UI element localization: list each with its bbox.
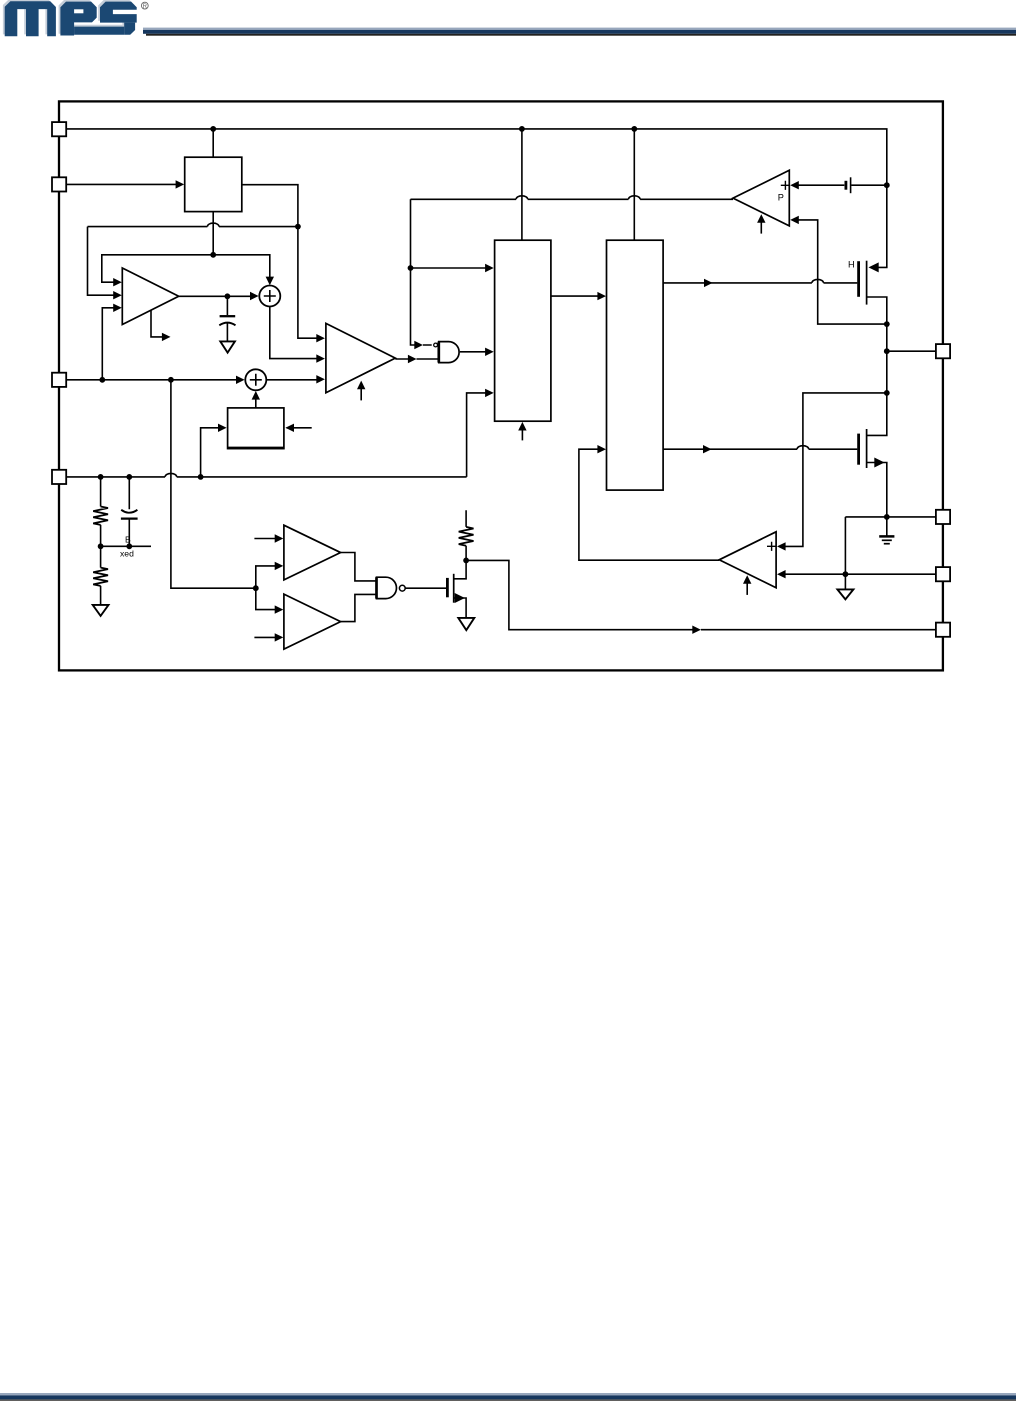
ground triangle under R2 <box>93 605 109 616</box>
wire EN input to block B1 <box>66 183 178 185</box>
AND gate U1 <box>439 342 459 363</box>
wire TB1 output to TB2 <box>551 295 599 297</box>
power ground earth symbol <box>879 535 894 538</box>
resistor R2 <box>100 546 102 605</box>
wire AND output to TB1 <box>460 351 486 353</box>
wire BST node to port rail <box>466 560 936 629</box>
wire error amp input 1 / B1 to summing node S1 <box>102 255 270 284</box>
wire T2 output to NAND <box>341 594 377 621</box>
wire CMP2 output to TB2 input <box>579 449 719 560</box>
port SW <box>936 344 950 358</box>
wire power ground stub <box>886 517 888 536</box>
label + on C4 <box>781 181 790 190</box>
wire B2 left input <box>201 428 220 477</box>
wire C4 minus input from SW sense <box>798 220 887 324</box>
resistor R3 above bootstrap FET <box>465 510 467 560</box>
summing junction S2 <box>245 369 266 390</box>
wire T1 output to NAND <box>341 553 377 581</box>
wire TB2 output to low-side FET gate <box>663 446 857 449</box>
svg-text:R: R <box>143 4 148 10</box>
port PGND <box>936 567 950 581</box>
wire TB1 bottom arrow <box>521 429 523 441</box>
wire CMP2 minus input rail to GND port <box>785 573 936 575</box>
capacitor C1 leads <box>128 477 130 546</box>
svg-text:P: P <box>778 192 784 202</box>
wire slope comp box B2 to S2 <box>255 393 257 408</box>
label + on CMP2 <box>767 542 776 551</box>
port IN <box>52 122 66 136</box>
wire COMP/IN rail to summing node S2 <box>66 379 238 381</box>
wire vertical to AND upper input <box>411 199 432 345</box>
wire PGND rail to port <box>845 516 935 518</box>
block B1 (oscillator) <box>185 157 242 211</box>
wire S2 output to PWM comparator input <box>266 379 318 381</box>
wire VIN top rail to high-side FET drain <box>66 129 887 268</box>
error amplifier EA <box>122 268 178 325</box>
wire bootstrap FET source to ground <box>454 598 466 618</box>
AND gate inverted input bubble <box>434 343 438 347</box>
wire CMP2 bias arrow <box>746 582 748 595</box>
port BST <box>936 510 950 524</box>
wire analog ground stub under CMP2 rail <box>844 574 846 589</box>
registered trademark symbol <box>141 2 148 10</box>
wire TB2 top pin <box>633 129 635 240</box>
wire TB1 top pin <box>521 129 523 240</box>
wire branch to driver buffers <box>171 380 256 588</box>
driver buffer T1 <box>284 525 341 580</box>
wire S1 output to PWM comparator input <box>270 307 318 359</box>
PWM comparator C1 <box>326 323 395 392</box>
wire feedback net at y=226 <box>88 223 298 227</box>
port AGND <box>936 623 950 637</box>
wire low-side FET source to PGND <box>867 463 887 517</box>
wire PWM comparator clock arrow <box>360 388 362 401</box>
wire TB2 output to high-side FET gate <box>663 279 857 282</box>
wire to error amp input 2 <box>88 227 115 296</box>
analog ground triangle <box>837 589 853 599</box>
reference battery symbol <box>845 181 848 190</box>
capacitor C1 plates <box>121 510 137 513</box>
port COMP <box>52 373 66 387</box>
NAND gate U2 <box>377 577 397 598</box>
wire B2 right stub input <box>287 427 312 429</box>
wire C4 plus input with reference <box>798 184 887 186</box>
wire FB rail from port to TB1 input 3 <box>66 473 467 476</box>
wire bootstrap FET drain to node <box>454 560 466 578</box>
wire buffer T2 upper input <box>256 588 276 609</box>
wire error amp bias stub arrow <box>151 310 164 337</box>
driver logic block TB2 <box>607 240 664 490</box>
wire buffer T1 lower input <box>256 566 276 588</box>
comparator C4 (over-voltage) <box>733 170 789 226</box>
wire buffer T1 upper stub <box>254 538 276 540</box>
wire divider mid node <box>101 545 151 547</box>
wire buffer T2 lower stub <box>254 636 276 638</box>
low-side MOSFET Q2 <box>857 434 860 465</box>
wire PGND to CMP2 reference rail <box>844 517 846 574</box>
control logic block TB1 <box>495 240 551 421</box>
port EN <box>52 177 66 191</box>
wire C4 output to AND gate upper input <box>411 196 734 200</box>
bootstrap MOSFET Q3 <box>446 578 449 597</box>
wire B1 bottom pin <box>212 212 214 255</box>
comparator CMP2 (zero-cross) <box>719 532 776 588</box>
wire to control block TB1 input 1 <box>411 267 487 269</box>
wire error amp output to S1 <box>179 295 252 297</box>
footer rule <box>0 1393 1016 1401</box>
wire C4 bias arrow <box>760 221 762 234</box>
functional block diagram border <box>59 101 943 670</box>
wire error amp input 3 from FB rail <box>102 308 114 380</box>
wire SW node to SW port <box>887 350 936 352</box>
header rule <box>143 28 1016 36</box>
ground triangle under bootstrap FET <box>458 618 474 630</box>
MPS logo <box>3 0 138 36</box>
wire PWM comparator output to AND gate <box>395 358 437 360</box>
wire NAND output to bootstrap FET gate <box>405 587 446 589</box>
port FB <box>52 470 66 484</box>
high-side MOSFET Q1 <box>857 261 860 297</box>
wire low-side FET drain to SW <box>867 393 887 436</box>
driver buffer T2 <box>284 594 341 649</box>
NAND output bubble <box>399 585 405 591</box>
summing junction S1 <box>259 286 280 307</box>
wire B1 output to PWM comparator input <box>242 185 318 339</box>
wire FB divider top <box>100 477 102 546</box>
svg-text:xed: xed <box>120 548 134 558</box>
slope compensation block B2 <box>228 408 284 449</box>
wire B1 top pin <box>212 129 214 157</box>
svg-text:H: H <box>848 260 855 270</box>
ground triangle under compensation cap <box>220 341 235 352</box>
svg-text:B: B <box>125 534 131 544</box>
wire high-side FET source to SW node <box>867 297 887 393</box>
resistor R1 <box>93 507 108 525</box>
compensation capacitor on EA output <box>226 296 228 341</box>
wire SW to CMP2 plus input <box>785 393 887 547</box>
